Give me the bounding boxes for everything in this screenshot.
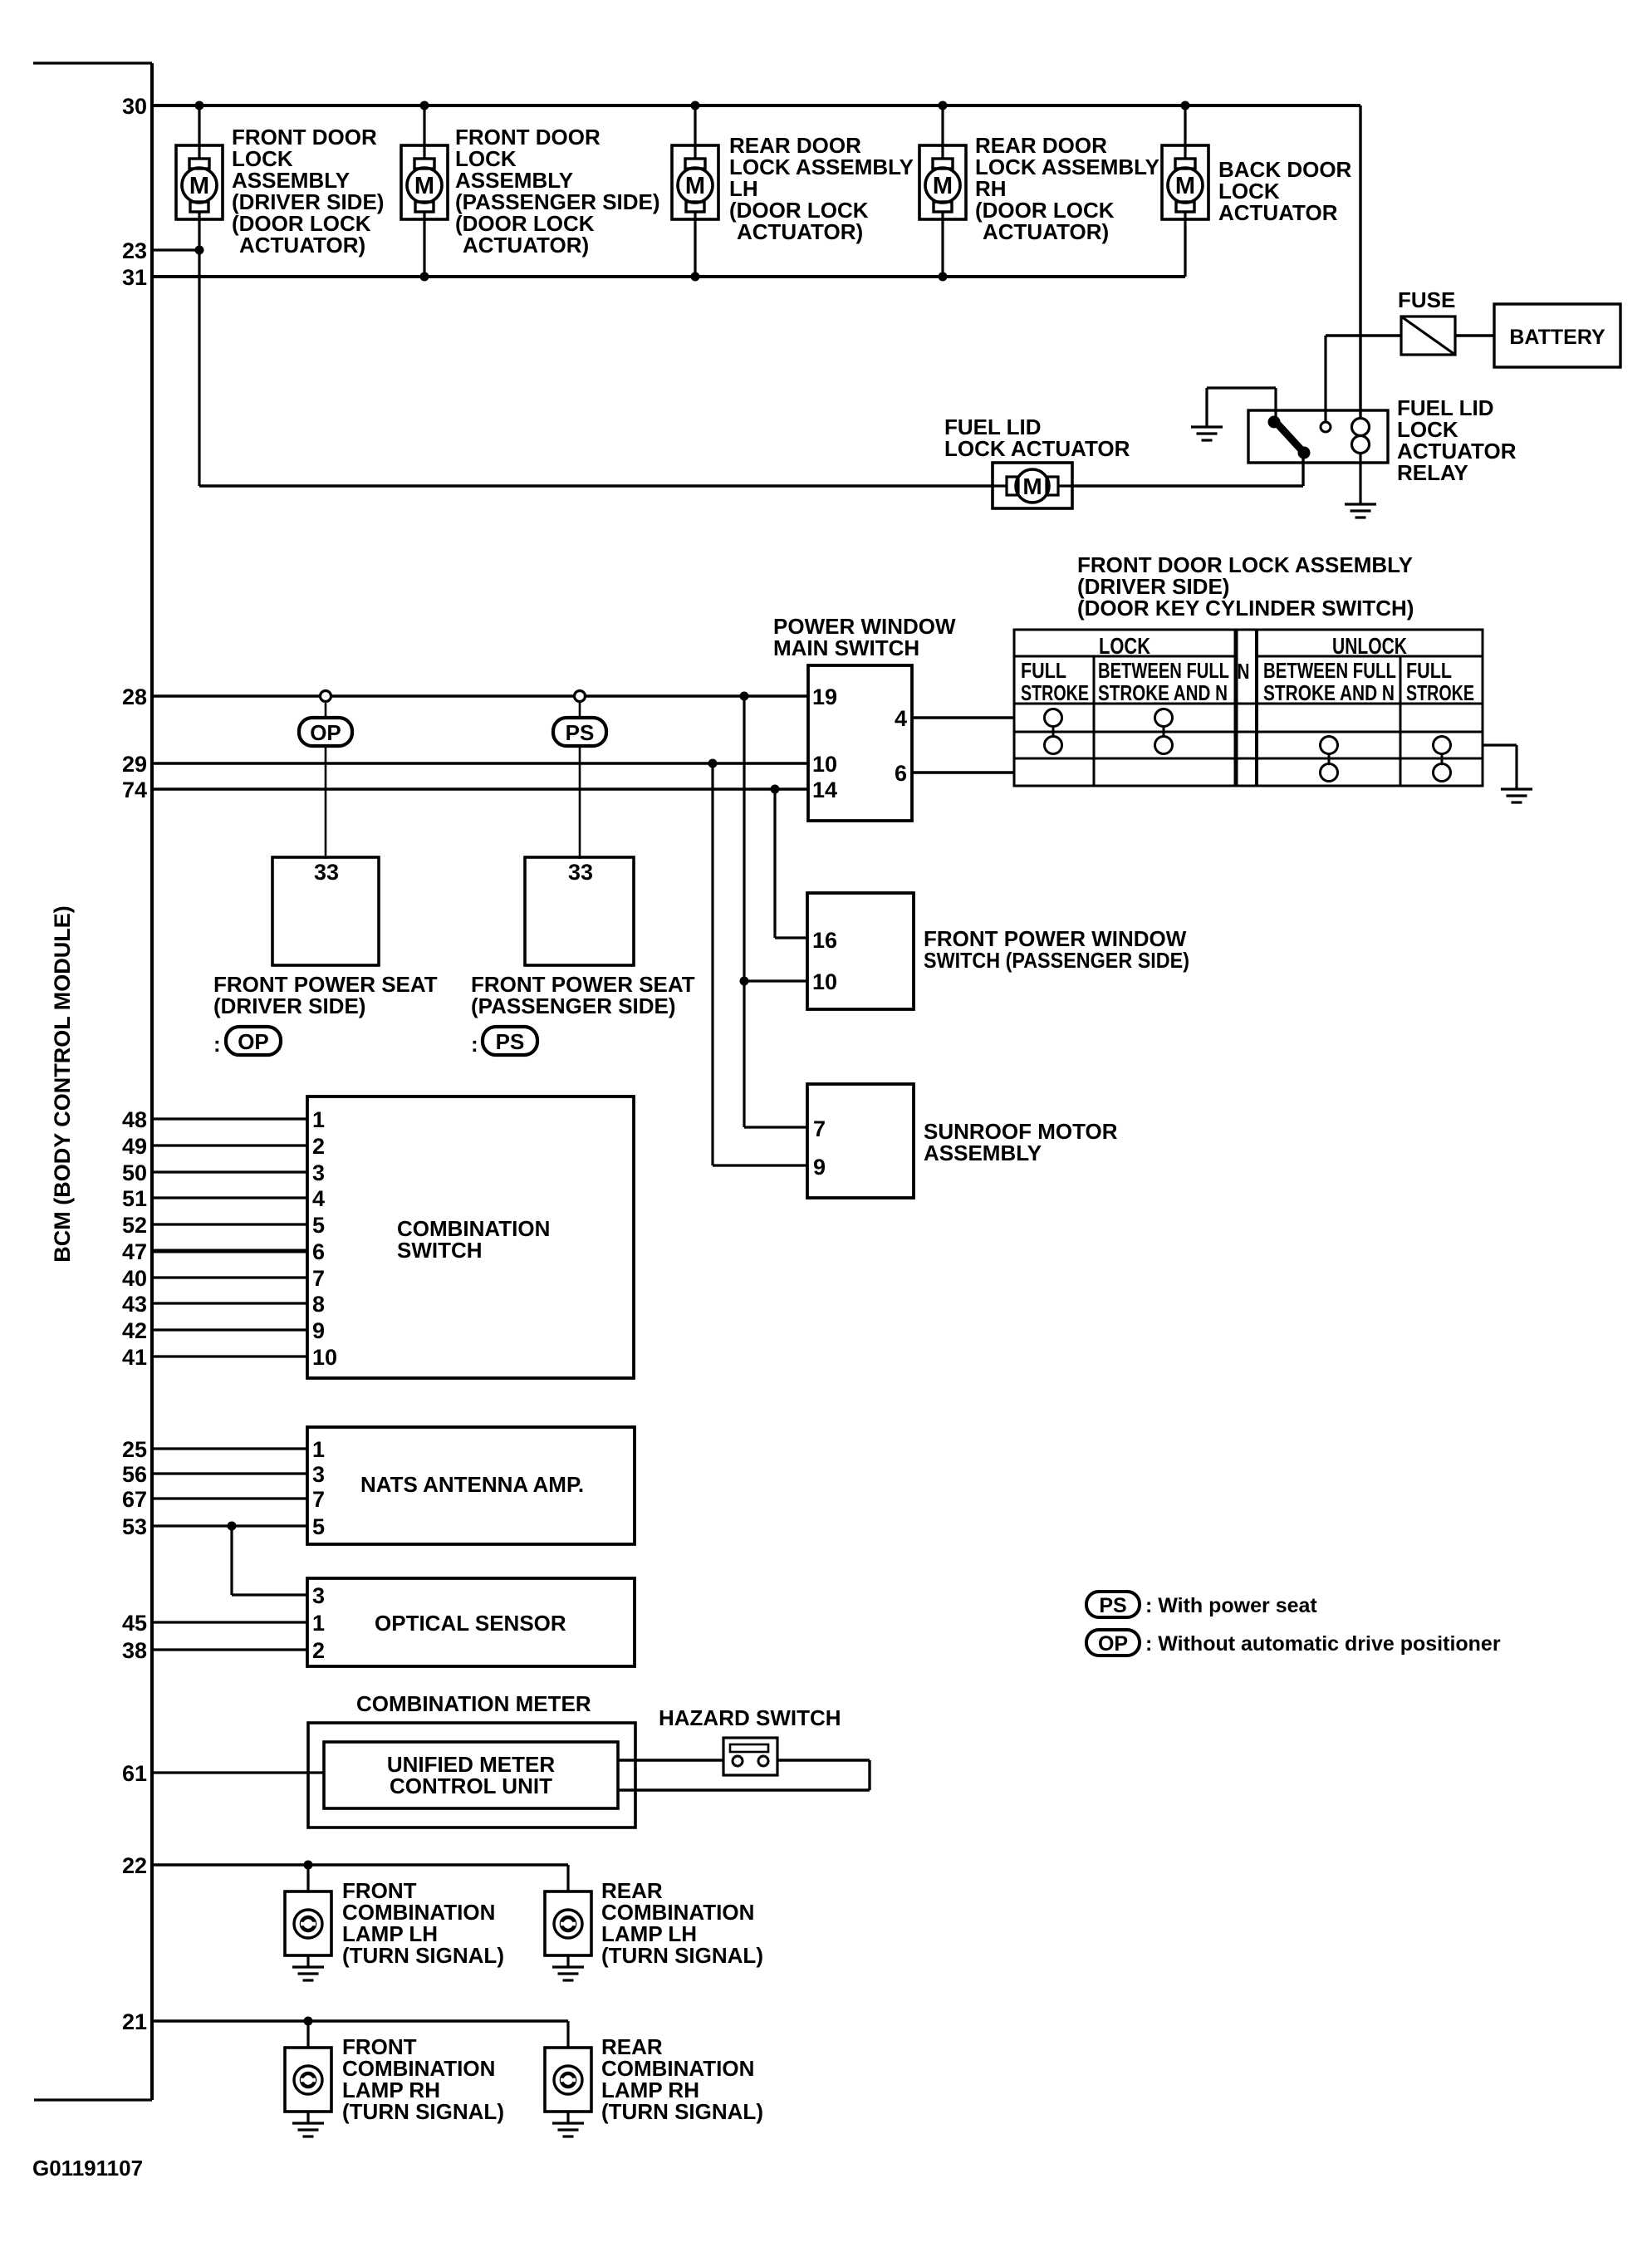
PS option oval bbox=[553, 718, 606, 746]
NATS antenna amp box bbox=[307, 1427, 635, 1544]
wire combination switch pin 5 bbox=[152, 1223, 307, 1225]
svg-text:45: 45 bbox=[122, 1611, 147, 1636]
PS branch connector circle bbox=[575, 691, 586, 702]
svg-text::: : bbox=[213, 1032, 221, 1057]
key cylinder switch table frame bbox=[1014, 630, 1483, 786]
svg-text:5: 5 bbox=[312, 1213, 325, 1238]
junction on pin30 bus x=1135 bbox=[939, 101, 948, 110]
fuel lid lock actuator motor bbox=[993, 463, 1072, 508]
svg-text:74: 74 bbox=[122, 778, 147, 802]
svg-text:BETWEEN FULL: BETWEEN FULL bbox=[1263, 658, 1396, 683]
contact circle lock full stroke row A bbox=[1045, 709, 1062, 727]
junction pin74/fpw branch bbox=[771, 785, 780, 794]
ground front lamp RH bbox=[292, 2123, 324, 2137]
wire pin30 bus bbox=[152, 104, 1360, 107]
svg-text:MAIN SWITCH: MAIN SWITCH bbox=[773, 635, 919, 660]
svg-text:21: 21 bbox=[122, 2009, 147, 2034]
wire combination switch pin 3 bbox=[152, 1170, 307, 1173]
wire sunroof pin9 bbox=[713, 1164, 807, 1166]
svg-text:19: 19 bbox=[812, 684, 837, 709]
ground key cylinder switch bbox=[1501, 789, 1532, 802]
svg-text:52: 52 bbox=[122, 1213, 147, 1238]
lamp rear combination lamp LH bbox=[545, 1891, 591, 1955]
svg-text:28: 28 bbox=[122, 684, 147, 709]
svg-text:61: 61 bbox=[122, 1761, 147, 1786]
wire pin21 line bbox=[152, 2019, 568, 2023]
motor rear door lock actuator RH bbox=[919, 145, 966, 219]
optical sensor box bbox=[307, 1578, 635, 1666]
lamp front combination lamp RH bbox=[285, 2048, 331, 2112]
contact circle unlock full stroke row B bbox=[1434, 737, 1451, 754]
svg-text:47: 47 bbox=[122, 1239, 147, 1264]
battery box bbox=[1494, 304, 1620, 367]
svg-text:48: 48 bbox=[122, 1107, 147, 1132]
wire pin29 line bbox=[152, 762, 808, 765]
svg-text:PS: PS bbox=[1099, 1594, 1126, 1617]
svg-text:: Without automatic drive posi: : Without automatic drive positioner bbox=[1145, 1632, 1501, 1656]
svg-text:OPTICAL SENSOR: OPTICAL SENSOR bbox=[375, 1611, 566, 1636]
svg-text::: : bbox=[471, 1032, 478, 1057]
wire back door lock actuator drop bbox=[1184, 105, 1186, 277]
svg-text:14: 14 bbox=[812, 778, 837, 802]
junction pin29/sunroof branch bbox=[708, 759, 718, 768]
wire relay contact feed bbox=[1324, 336, 1326, 422]
wire passenger lock actuator drop bbox=[423, 105, 425, 277]
junction on pin31 bus x=1135 bbox=[939, 272, 948, 282]
svg-text:HAZARD SWITCH: HAZARD SWITCH bbox=[659, 1705, 841, 1730]
svg-text:25: 25 bbox=[122, 1437, 147, 1462]
contact circle unlock between row C bbox=[1321, 764, 1338, 782]
svg-text:ASSEMBLY: ASSEMBLY bbox=[924, 1141, 1042, 1165]
junction pin23/driver actuator bbox=[195, 246, 204, 255]
svg-text:LOCK ACTUATOR: LOCK ACTUATOR bbox=[944, 436, 1130, 461]
wire fpw pin16 bbox=[775, 936, 807, 939]
svg-text:CONTROL UNIT: CONTROL UNIT bbox=[390, 1773, 552, 1798]
wire pin6 to key cylinder table bbox=[912, 771, 1014, 774]
lamp rear combination lamp RH bbox=[545, 2048, 591, 2112]
BCM bracket bottom line bbox=[34, 2098, 152, 2101]
wire front lamp RH to ground bbox=[306, 2112, 309, 2123]
svg-text:56: 56 bbox=[122, 1462, 147, 1487]
wire combination switch pin 8 bbox=[152, 1302, 307, 1304]
wire combination switch pin 10 bbox=[152, 1355, 307, 1357]
wire fuel lid to relay arm bbox=[1302, 453, 1304, 486]
ground rear lamp LH bbox=[552, 1967, 584, 1980]
wire pin28 line bbox=[152, 694, 808, 698]
svg-text:51: 51 bbox=[122, 1186, 147, 1211]
OP oval under driver seat label bbox=[226, 1027, 281, 1055]
fuse symbol bbox=[1401, 316, 1455, 355]
contact circle unlock between row B bbox=[1321, 737, 1338, 754]
hazard switch box bbox=[723, 1738, 777, 1775]
front power window switch box bbox=[807, 893, 914, 1009]
unified meter control unit box bbox=[324, 1742, 618, 1808]
wire rear lamp RH drop bbox=[566, 2021, 569, 2048]
OP branch connector circle bbox=[321, 691, 331, 702]
svg-text:(DOOR KEY CYLINDER SWITCH): (DOOR KEY CYLINDER SWITCH) bbox=[1077, 596, 1414, 621]
BCM bracket top line bbox=[33, 61, 152, 64]
svg-text:BCM (BODY CONTROL MODULE): BCM (BODY CONTROL MODULE) bbox=[50, 905, 75, 1262]
contact circle unlock full stroke row C bbox=[1434, 764, 1451, 782]
combination switch box bbox=[307, 1096, 634, 1378]
wire NATS pin 3 bbox=[152, 1472, 307, 1474]
table N column right border bbox=[1255, 630, 1258, 786]
wire fuse to battery bbox=[1455, 334, 1494, 336]
wire rear lamp RH to ground bbox=[566, 2112, 569, 2123]
svg-text:7: 7 bbox=[813, 1116, 826, 1141]
svg-text:BATTERY: BATTERY bbox=[1509, 326, 1605, 349]
wire combination switch pin 7 bbox=[152, 1276, 307, 1278]
svg-text:22: 22 bbox=[122, 1853, 147, 1878]
svg-text:FULL: FULL bbox=[1021, 658, 1066, 683]
svg-text:PS: PS bbox=[496, 1029, 525, 1054]
wire front lamp LH drop bbox=[306, 1865, 309, 1891]
svg-text:(PASSENGER SIDE): (PASSENGER SIDE) bbox=[471, 993, 676, 1018]
junction front lamp RH bbox=[304, 2017, 313, 2026]
svg-text:31: 31 bbox=[122, 265, 147, 290]
svg-text:1: 1 bbox=[312, 1107, 325, 1132]
svg-text:PS: PS bbox=[566, 720, 595, 745]
wire to fpw pin10 bbox=[744, 979, 807, 982]
svg-text:29: 29 bbox=[122, 752, 147, 777]
svg-text:9: 9 bbox=[312, 1318, 325, 1343]
junction on pin30 bus x=240 bbox=[195, 101, 204, 110]
contact link lock col2 bbox=[1163, 726, 1165, 737]
wire pin4 to key cylinder table bbox=[912, 716, 1014, 719]
svg-text:M: M bbox=[414, 173, 434, 199]
wire NATS pin 1 bbox=[152, 1447, 307, 1450]
ground relay pivot bbox=[1191, 427, 1223, 440]
svg-text:1: 1 bbox=[312, 1611, 325, 1636]
ground relay coil bbox=[1345, 504, 1376, 518]
wire pin74 line bbox=[152, 787, 808, 791]
wire combination switch pin 9 bbox=[152, 1328, 307, 1331]
svg-text:STROKE AND N: STROKE AND N bbox=[1263, 680, 1395, 705]
svg-text:3: 3 bbox=[312, 1160, 325, 1185]
svg-text:M: M bbox=[1022, 473, 1042, 499]
svg-text:16: 16 bbox=[812, 928, 837, 953]
relay coil bbox=[1352, 419, 1370, 454]
svg-text:53: 53 bbox=[122, 1514, 147, 1539]
svg-text:SWITCH: SWITCH bbox=[397, 1238, 483, 1263]
contact circle lock between row B bbox=[1155, 737, 1173, 754]
junction on pin31 bus x=511 bbox=[420, 272, 429, 282]
wire table to ground bbox=[1483, 743, 1517, 746]
wire rear lamp LH to ground bbox=[566, 1955, 569, 1967]
wire optical pin3 branch bbox=[230, 1526, 233, 1595]
wire pin22 line bbox=[152, 1863, 568, 1867]
contact link unlock col5 bbox=[1441, 753, 1444, 764]
wire hazard return vertical bbox=[868, 1760, 870, 1790]
svg-text:G01191107: G01191107 bbox=[32, 2156, 143, 2181]
svg-text:5: 5 bbox=[312, 1514, 325, 1539]
table N column left border bbox=[1234, 630, 1238, 786]
contact circle lock between row A bbox=[1155, 709, 1173, 727]
wire pin61 bbox=[152, 1771, 324, 1773]
fuse diagonal bbox=[1401, 316, 1455, 355]
junction front lamp LH bbox=[304, 1861, 313, 1870]
svg-text:38: 38 bbox=[122, 1638, 147, 1663]
svg-text:2: 2 bbox=[312, 1134, 325, 1159]
wire meter to hazard switch bbox=[618, 1759, 723, 1761]
junction on pin30 bus x=837 bbox=[691, 101, 700, 110]
svg-text:UNLOCK: UNLOCK bbox=[1332, 633, 1407, 659]
svg-text:30: 30 bbox=[122, 94, 147, 119]
svg-text:NATS ANTENNA AMP.: NATS ANTENNA AMP. bbox=[360, 1472, 584, 1497]
svg-text:1: 1 bbox=[312, 1437, 325, 1462]
wire branch x858 down to sunroof pin9 bbox=[711, 763, 713, 1165]
contact link lock col1 bbox=[1052, 726, 1055, 737]
combination meter outer box bbox=[308, 1723, 635, 1827]
wire NATS pin 7 bbox=[152, 1497, 307, 1499]
svg-text:23: 23 bbox=[122, 238, 147, 263]
junction pin53/optical branch bbox=[228, 1522, 237, 1531]
wire OP branch drop bbox=[325, 702, 327, 859]
wire driver lock actuator drop / fuel lid feed bbox=[198, 105, 200, 486]
svg-text:(TURN SIGNAL): (TURN SIGNAL) bbox=[342, 1943, 504, 1968]
wire fuel lid actuator line right bbox=[1071, 484, 1303, 487]
svg-text:FULL: FULL bbox=[1406, 658, 1452, 683]
junction fpw pin10 branch bbox=[740, 977, 749, 986]
wire battery feed to fuse bbox=[1326, 334, 1401, 336]
svg-text:6: 6 bbox=[895, 761, 907, 786]
svg-text:33: 33 bbox=[314, 860, 339, 885]
wire combination switch pin 4 bbox=[152, 1196, 307, 1199]
contact link unlock col4 bbox=[1328, 753, 1331, 764]
wire combination switch pin 6 bbox=[152, 1249, 307, 1253]
svg-text:ACTUATOR): ACTUATOR) bbox=[737, 219, 863, 244]
sunroof motor assembly box bbox=[807, 1084, 914, 1198]
svg-text:41: 41 bbox=[122, 1345, 147, 1370]
svg-text:COMBINATION METER: COMBINATION METER bbox=[356, 1691, 591, 1716]
wire PS branch drop bbox=[579, 702, 581, 859]
wire NATS pin 5 bbox=[152, 1524, 307, 1527]
svg-text:4: 4 bbox=[312, 1186, 325, 1211]
svg-text:RELAY: RELAY bbox=[1397, 460, 1468, 485]
lamp front combination lamp LH bbox=[285, 1891, 331, 1955]
wire pin30 corner down to relay coil bbox=[1359, 105, 1361, 419]
svg-text:10: 10 bbox=[812, 752, 837, 777]
svg-text:42: 42 bbox=[122, 1318, 147, 1343]
wire front lamp RH drop bbox=[306, 2021, 309, 2048]
wire hazard return bottom bbox=[618, 1788, 870, 1791]
svg-text:10: 10 bbox=[312, 1345, 337, 1370]
svg-text:LOCK: LOCK bbox=[1099, 633, 1150, 659]
ground front lamp LH bbox=[292, 1967, 324, 1980]
svg-text:M: M bbox=[1175, 173, 1195, 199]
svg-text:50: 50 bbox=[122, 1160, 147, 1185]
motor front door lock actuator passenger bbox=[401, 145, 448, 219]
motor front door lock actuator driver bbox=[176, 145, 223, 219]
svg-text:7: 7 bbox=[312, 1266, 325, 1291]
junction pin28/sunroof-fpw branch bbox=[740, 692, 749, 701]
svg-text:3: 3 bbox=[312, 1462, 325, 1487]
svg-text:(DRIVER SIDE): (DRIVER SIDE) bbox=[213, 993, 365, 1018]
legend PS oval bbox=[1086, 1592, 1140, 1617]
front power seat driver box bbox=[272, 857, 379, 965]
svg-text:OP: OP bbox=[1098, 1632, 1128, 1656]
wire pin23 stub bbox=[152, 248, 199, 251]
svg-text:BETWEEN FULL: BETWEEN FULL bbox=[1098, 658, 1229, 683]
wire sunroof pin7 bbox=[744, 1126, 807, 1128]
wire optical pin 2 bbox=[152, 1648, 307, 1651]
relay contact circle bbox=[1321, 422, 1331, 432]
svg-text:STROKE: STROKE bbox=[1021, 680, 1089, 705]
svg-text:10: 10 bbox=[812, 969, 837, 994]
svg-text:ACTUATOR): ACTUATOR) bbox=[239, 233, 365, 258]
PS oval under passenger seat label bbox=[483, 1027, 537, 1055]
hazard switch contact right bbox=[758, 1756, 768, 1766]
junction on pin30 bus x=1427 bbox=[1181, 101, 1190, 110]
svg-text:2: 2 bbox=[312, 1638, 325, 1663]
junction on pin30 bus x=511 bbox=[420, 101, 429, 110]
legend OP oval bbox=[1086, 1630, 1140, 1656]
svg-text:67: 67 bbox=[122, 1487, 147, 1512]
svg-text:STROKE AND N: STROKE AND N bbox=[1098, 680, 1228, 705]
svg-text:STROKE: STROKE bbox=[1406, 680, 1474, 705]
svg-text:ACTUATOR): ACTUATOR) bbox=[983, 219, 1109, 244]
svg-text:M: M bbox=[189, 173, 209, 199]
wire front lamp LH to ground bbox=[306, 1955, 309, 1967]
svg-text:49: 49 bbox=[122, 1134, 147, 1159]
svg-text:9: 9 bbox=[813, 1155, 826, 1180]
front power seat passenger box bbox=[525, 857, 634, 965]
contact circle lock full stroke row B bbox=[1045, 737, 1062, 754]
svg-text:7: 7 bbox=[312, 1487, 325, 1512]
svg-text:SWITCH (PASSENGER SIDE): SWITCH (PASSENGER SIDE) bbox=[924, 948, 1189, 973]
OP option oval bbox=[299, 718, 352, 746]
wire branch x933 down to fpw pin16 bbox=[773, 789, 776, 938]
svg-text:(TURN SIGNAL): (TURN SIGNAL) bbox=[601, 2099, 763, 2124]
svg-text:(TURN SIGNAL): (TURN SIGNAL) bbox=[601, 1943, 763, 1968]
wire relay arm pivot to ground bbox=[1274, 388, 1277, 423]
wire hazard switch return right bbox=[777, 1759, 870, 1761]
junction on pin31 bus x=837 bbox=[691, 272, 700, 282]
hazard switch bar bbox=[730, 1744, 768, 1752]
wire rear RH lock actuator drop bbox=[941, 105, 944, 277]
svg-text:8: 8 bbox=[312, 1292, 325, 1317]
svg-text:40: 40 bbox=[122, 1266, 147, 1291]
power window main switch box bbox=[808, 665, 912, 821]
fuel lid lock actuator relay box bbox=[1248, 410, 1388, 463]
svg-text:ACTUATOR: ACTUATOR bbox=[1218, 200, 1338, 225]
svg-text:33: 33 bbox=[568, 860, 593, 885]
svg-text:OP: OP bbox=[238, 1029, 269, 1054]
wire branch x896 down to sunroof pin7 bbox=[743, 696, 745, 1127]
wire pin31 bus bbox=[152, 275, 1185, 278]
wire combination switch pin 2 bbox=[152, 1144, 307, 1146]
svg-text:3: 3 bbox=[312, 1583, 325, 1608]
wire rear lamp LH drop bbox=[566, 1865, 569, 1891]
wire fuel lid actuator line left bbox=[199, 484, 994, 487]
svg-text:M: M bbox=[685, 173, 705, 199]
motor rear door lock actuator LH bbox=[672, 145, 718, 219]
svg-text:M: M bbox=[933, 173, 953, 199]
svg-text:ACTUATOR): ACTUATOR) bbox=[463, 233, 589, 258]
relay switch arm bbox=[1275, 421, 1304, 453]
svg-text:(TURN SIGNAL): (TURN SIGNAL) bbox=[342, 2099, 504, 2124]
BCM vertical bus line bbox=[150, 63, 154, 2100]
svg-text:4: 4 bbox=[895, 706, 907, 731]
svg-text:FUSE: FUSE bbox=[1398, 287, 1455, 312]
hazard switch contact left bbox=[733, 1756, 743, 1766]
svg-text:: With power seat: : With power seat bbox=[1145, 1594, 1317, 1617]
motor back door lock actuator bbox=[1162, 145, 1208, 219]
svg-text:6: 6 bbox=[312, 1239, 325, 1264]
wire optical pin 1 bbox=[152, 1621, 307, 1623]
svg-text:N: N bbox=[1238, 659, 1250, 684]
wire rear LH lock actuator drop bbox=[694, 105, 696, 277]
svg-text:OP: OP bbox=[310, 720, 341, 745]
ground rear lamp RH bbox=[552, 2123, 584, 2137]
wire combination switch pin 1 bbox=[152, 1117, 307, 1120]
wire relay coil to ground bbox=[1359, 454, 1361, 504]
svg-text:43: 43 bbox=[122, 1292, 147, 1317]
